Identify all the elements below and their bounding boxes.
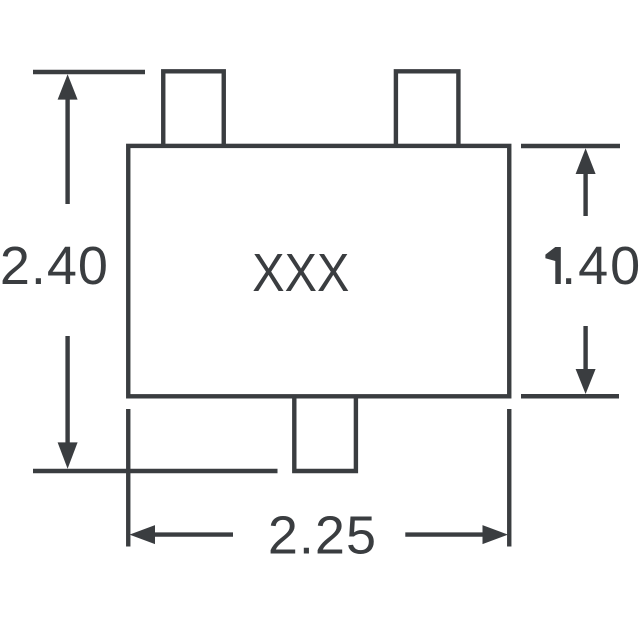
svg-text:2.40: 2.40 [0,236,109,296]
svg-text:XXX: XXX [252,243,349,303]
svg-text:2.25: 2.25 [268,506,377,566]
svg-text:.40: .40 [561,236,640,296]
